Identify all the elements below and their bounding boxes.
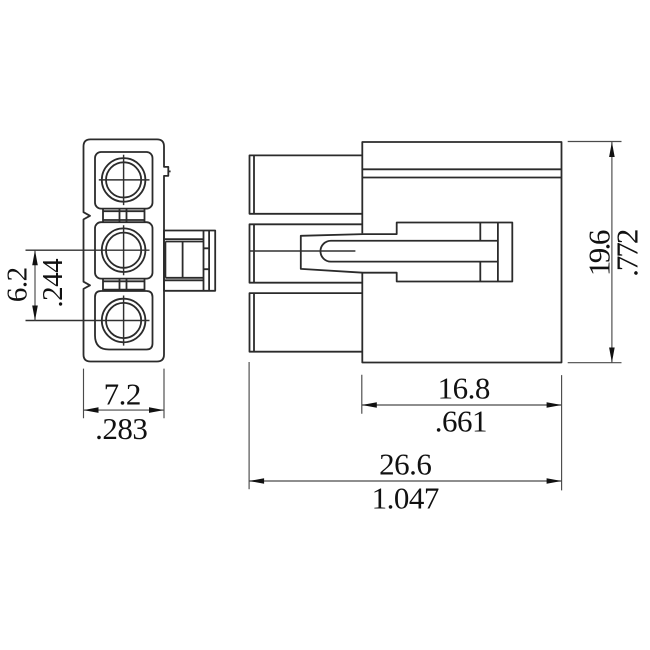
svg-text:6.2: 6.2 bbox=[2, 267, 34, 302]
svg-text:7.2: 7.2 bbox=[104, 377, 141, 412]
svg-text:.283: .283 bbox=[95, 411, 147, 446]
svg-text:26.6: 26.6 bbox=[379, 447, 431, 482]
svg-text:.244: .244 bbox=[37, 258, 69, 308]
svg-text:.772: .772 bbox=[610, 230, 645, 277]
svg-text:.661: .661 bbox=[435, 403, 487, 438]
svg-text:1.047: 1.047 bbox=[372, 481, 439, 516]
svg-text:16.8: 16.8 bbox=[438, 371, 490, 406]
